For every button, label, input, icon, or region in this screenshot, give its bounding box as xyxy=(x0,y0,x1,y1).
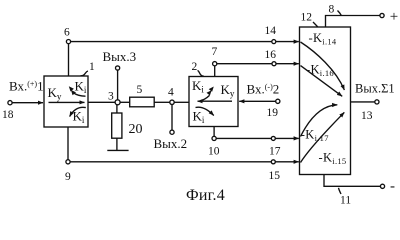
small arrow to Ki (NW) xyxy=(73,93,86,97)
terminal 14 xyxy=(272,40,276,44)
svg-text:Kу: Kу xyxy=(48,85,62,102)
Ki bottom-left in block 2 xyxy=(193,109,205,126)
svg-text:Ki: Ki xyxy=(193,109,205,126)
svg-text:10: 10 xyxy=(208,146,220,158)
wire node4 to block 2 xyxy=(174,101,189,103)
svg-text:3: 3 xyxy=(108,91,114,103)
wire node7 to terminal 16 xyxy=(217,63,272,65)
wire 17 into block 12 xyxy=(275,137,299,139)
gain -Ki.14 xyxy=(309,31,337,47)
svg-text:+: + xyxy=(390,9,398,25)
Ki top-right in block 1 xyxy=(75,79,87,96)
block 2 xyxy=(189,77,238,127)
svg-text:Вых.Σ1: Вых.Σ1 xyxy=(355,82,395,96)
svg-text:Ki: Ki xyxy=(73,109,85,126)
terminal 18 xyxy=(8,101,12,105)
gain -Ki.17 xyxy=(301,127,329,143)
gain -Ki.15 xyxy=(319,151,347,167)
svg-text:Ki: Ki xyxy=(192,78,204,95)
svg-text:4: 4 xyxy=(168,87,174,99)
wire block2 bottom to node 10 xyxy=(213,127,215,137)
Ky label in block 1 xyxy=(48,85,62,102)
svg-text:-Ki.14: -Ki.14 xyxy=(309,31,337,47)
svg-text:Вых.3: Вых.3 xyxy=(103,49,137,64)
internal arrow Ky (right) xyxy=(49,101,85,103)
node 9 xyxy=(66,160,70,164)
label 2 with leader xyxy=(192,61,198,73)
svg-text:13: 13 xyxy=(361,110,373,122)
svg-text:-: - xyxy=(390,179,395,195)
svg-text:14: 14 xyxy=(265,25,277,37)
small arrow to Ki (NE) xyxy=(199,95,210,101)
terminal Вых.3 xyxy=(116,66,120,70)
gain -Ki.16 xyxy=(306,63,334,79)
wire node6 to terminal 14 xyxy=(71,41,272,43)
internal arrow Ky (left) xyxy=(198,100,233,102)
svg-text:8: 8 xyxy=(329,4,335,16)
svg-text:Вх.(-)2: Вх.(-)2 xyxy=(247,82,280,97)
wire 15 into block 12 xyxy=(275,161,299,163)
wire 18 to block1 xyxy=(12,102,43,104)
node 3 xyxy=(115,100,120,105)
svg-text:7: 7 xyxy=(212,46,218,58)
wire 19 into block 2 xyxy=(239,100,276,102)
output terminal 13 (Вых.Σ1) xyxy=(351,101,375,103)
Ki bottom-right in block 1 xyxy=(73,109,85,126)
label 18 xyxy=(2,109,14,121)
wire 14 into block 12 xyxy=(276,41,299,43)
wire node4 down to Вых.2 xyxy=(171,105,173,131)
curved arrow Ki bottom (SE) xyxy=(196,107,214,115)
svg-text:Ki: Ki xyxy=(75,79,87,96)
terminal 17 xyxy=(271,136,275,140)
wire node10 to terminal 17 xyxy=(216,137,271,139)
Ki top-left in block 2 xyxy=(192,78,204,95)
wire Вых.3 to node 3 xyxy=(117,70,119,100)
svg-text:5: 5 xyxy=(137,84,143,96)
summing block 12 xyxy=(300,27,351,175)
svg-text:6: 6 xyxy=(64,27,70,39)
svg-text:Вых.2: Вых.2 xyxy=(154,136,188,151)
svg-text:Kу: Kу xyxy=(221,82,235,99)
node 6 xyxy=(66,40,70,44)
svg-text:20: 20 xyxy=(129,122,143,137)
terminal 19 xyxy=(276,99,280,103)
wire block1 to node 3 xyxy=(88,101,115,103)
terminal 16 xyxy=(272,62,276,66)
terminal 15 xyxy=(271,160,275,164)
label 1 with leader xyxy=(89,61,95,73)
wire node9 to terminal 15 xyxy=(70,161,271,163)
resistor 20 xyxy=(116,105,118,113)
svg-text:15: 15 xyxy=(269,170,281,182)
node 4 xyxy=(170,100,174,104)
ground xyxy=(107,149,128,151)
svg-text:16: 16 xyxy=(265,49,277,61)
node 10 xyxy=(212,136,216,140)
svg-text:Фиг.4: Фиг.4 xyxy=(186,187,225,204)
svg-text:2: 2 xyxy=(192,61,198,73)
wire node7 down to block2 xyxy=(214,66,216,77)
terminal Вых.2 xyxy=(170,130,174,134)
wire node6 down to block1 xyxy=(68,44,70,76)
label Вх.(+)1 xyxy=(9,79,44,94)
svg-text:11: 11 xyxy=(340,195,351,207)
svg-text:1: 1 xyxy=(89,61,95,73)
power terminal 11 (-) xyxy=(324,175,380,187)
node 7 xyxy=(213,62,217,66)
svg-text:9: 9 xyxy=(65,171,71,183)
svg-text:-Ki.15: -Ki.15 xyxy=(319,151,347,167)
wire block1 bottom to node 9 xyxy=(67,127,69,160)
svg-text:Вх.(+)1: Вх.(+)1 xyxy=(9,79,44,94)
power terminal 8 (+) xyxy=(326,16,380,28)
block 1 xyxy=(44,76,88,127)
svg-text:19: 19 xyxy=(267,107,279,119)
svg-text:-Ki.16: -Ki.16 xyxy=(306,63,334,79)
Ky label in block 2 xyxy=(221,82,235,99)
svg-text:12: 12 xyxy=(301,12,313,24)
caption Фиг.4 xyxy=(186,187,225,204)
svg-text:18: 18 xyxy=(2,109,14,121)
wire 16 into block 12 xyxy=(276,63,299,65)
resistor 5 xyxy=(120,101,129,103)
curved arrow Ki bottom (SW) xyxy=(70,107,86,116)
svg-text:17: 17 xyxy=(269,146,281,158)
